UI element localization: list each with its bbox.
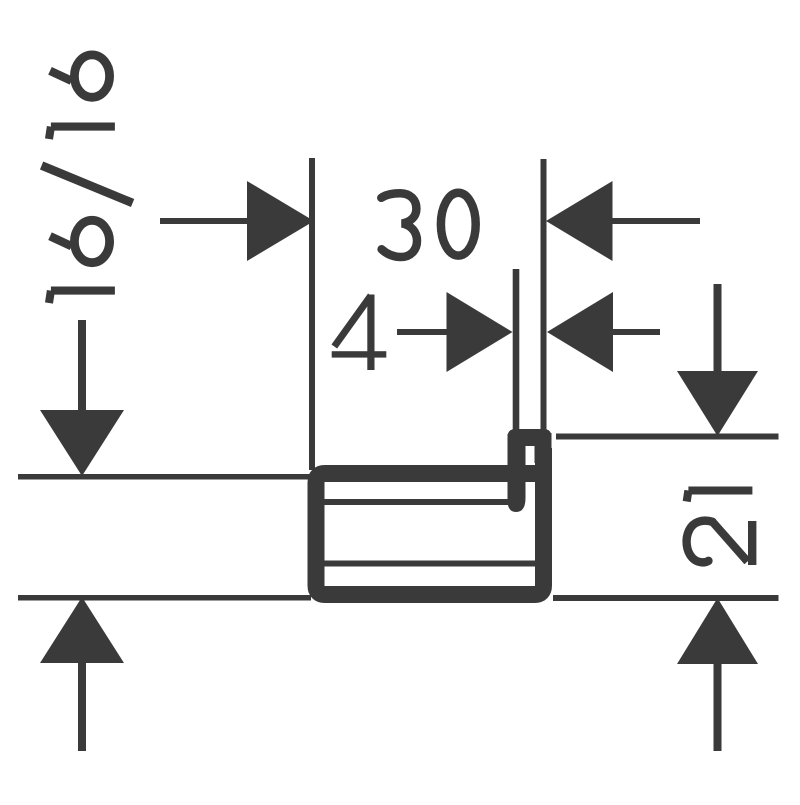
profile inner line lower (322, 561, 535, 567)
dim 30 left arrowhead (247, 181, 314, 261)
extension line left (x=312) (309, 158, 315, 470)
dim 4 digit 4 diagonal (334, 296, 371, 347)
dim 21 label: digit 1 bar (688, 486, 752, 494)
dim 16/16 lower boundary line (18, 595, 311, 601)
dim 21 label: digit 2 bow (687, 521, 713, 563)
extension line right (x=543.5) (541, 159, 547, 434)
dim 16/16 label: lower digit 1 bar (51, 287, 115, 295)
dim 16/16 label: upper digit 1 bar (51, 123, 115, 131)
dim 4 left leader line (397, 329, 448, 335)
dim 21 down arrowhead (677, 371, 758, 436)
dim 30 digit 3 (381, 193, 417, 257)
dim 21 label: digit 2 bar (748, 521, 756, 565)
dim 16/16 label: lower digit 6 flag (50, 236, 72, 246)
dim 30 left leader line (160, 218, 248, 224)
dim 4 right leader line (612, 329, 660, 335)
dim 16/16 label: lower digit 6 ring (74, 220, 109, 262)
extension line mid (x=516) (513, 269, 520, 437)
dim 16/16 down arrowhead (40, 410, 124, 476)
dim 4 digit 4 stem (367, 295, 374, 371)
dim 16/16 lower stem (78, 662, 86, 751)
dim 21 up arrowhead (677, 598, 758, 664)
dim 30 digit 0 (441, 193, 476, 256)
dim 16/16 label: slash (42, 166, 133, 204)
dim 16/16 label: upper digit 1 flag (49, 127, 51, 139)
profile hook top bar (508, 429, 552, 446)
dim 16/16 label: top digit 6 flag (50, 71, 72, 81)
dim 21 upper stem (714, 284, 722, 372)
profile main outline (316, 448, 552, 595)
dim 30 right arrowhead (546, 181, 613, 261)
dim 21 label: digit 1 flag (687, 491, 689, 502)
profile hook left leg with curled tip (508, 434, 526, 512)
dim 4 digit 4 crossbar (332, 351, 387, 357)
dim 21 lower boundary line (553, 595, 779, 601)
dim 16/16 up arrowhead (40, 597, 124, 663)
dim 30 right leader line (612, 218, 700, 224)
dim 4 left arrowhead (447, 292, 513, 372)
dim 21 upper boundary line (556, 434, 779, 440)
dim 4 right arrowhead (547, 292, 613, 372)
profile inner line upper (322, 499, 508, 505)
dim 21 lower stem (714, 663, 722, 751)
dim 21 label: digit 2 diagonal (713, 522, 748, 562)
profile right edge upper patch (535, 433, 552, 463)
dim 16/16 label: top digit 6 ring (74, 55, 109, 97)
dim 16/16 label: lower digit 1 flag (49, 291, 51, 303)
dim 16/16 upper boundary line (18, 474, 311, 480)
dim 16/16 upper stem (78, 320, 86, 411)
